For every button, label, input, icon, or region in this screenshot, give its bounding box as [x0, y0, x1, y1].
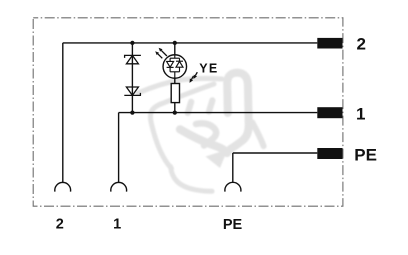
svg-text:PE: PE — [223, 217, 243, 233]
svg-text:1: 1 — [113, 217, 121, 233]
svg-text:2: 2 — [56, 217, 64, 233]
svg-text:YE: YE — [199, 62, 218, 76]
svg-text:2: 2 — [357, 35, 366, 54]
svg-text:PE: PE — [354, 145, 377, 164]
svg-text:1: 1 — [356, 105, 365, 124]
